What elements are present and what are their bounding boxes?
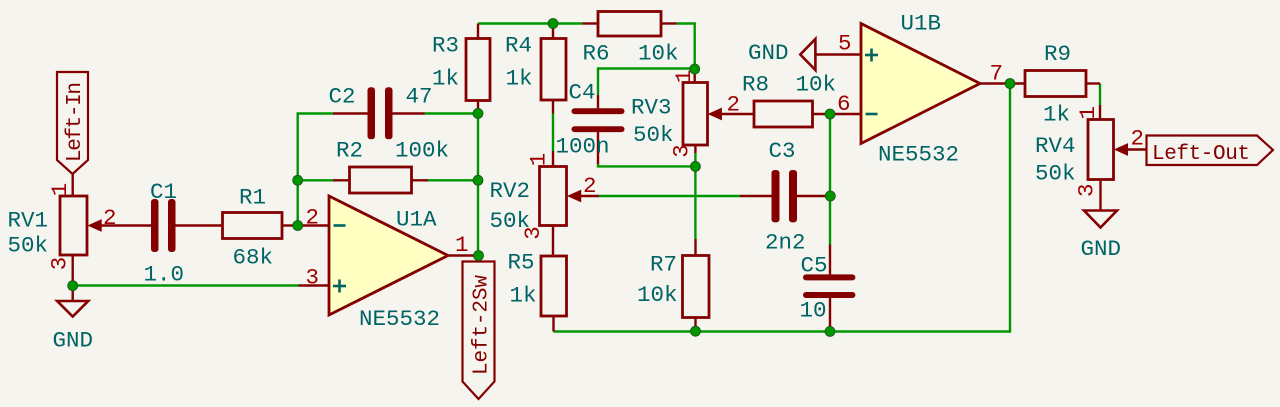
label RV4 [1035, 133, 1076, 159]
ground GND1 stem [71, 286, 73, 302]
pin number U1A-2 [306, 205, 320, 231]
global label Left-In [57, 72, 88, 174]
wire C4 top to RV3 pin1 node [598, 69, 695, 96]
junction J9 [690, 161, 700, 171]
capacitor C1 [151, 199, 223, 252]
svg-text:GND: GND [748, 40, 789, 66]
pin number U1B-5 [838, 31, 852, 57]
svg-text:2: 2 [306, 205, 320, 231]
value RV3 50k [633, 122, 674, 148]
pin stub RV1 pin3 [71, 255, 73, 286]
resistor R7 [683, 239, 710, 331]
wire R9 to RV4 pin1 [1099, 84, 1101, 106]
svg-text:3: 3 [306, 265, 320, 291]
value RV1 50k [8, 233, 49, 259]
global label Left-2Sw [463, 262, 495, 400]
label RV3 [631, 95, 672, 121]
capacitor C5 [803, 245, 855, 332]
svg-text:1k: 1k [510, 283, 537, 309]
pin number RV3-3 [669, 144, 695, 158]
junction J6 [548, 19, 558, 29]
pin number RV3-2 [727, 92, 741, 118]
pin number U1B-6 [837, 91, 851, 117]
value U1B NE5532 [878, 142, 959, 168]
label R2 [336, 138, 363, 164]
value R3 1k [432, 66, 459, 92]
pin stub RV2 pin3 to R5 [552, 226, 554, 257]
wire R2 right stub [428, 179, 478, 181]
value C3 2n2 [765, 230, 806, 256]
value C1 1.0 [144, 262, 185, 288]
ground GND4 text [1081, 236, 1122, 262]
pin number RV1-1 [47, 183, 73, 197]
svg-text:2: 2 [583, 173, 597, 199]
ground GND1 text [53, 328, 94, 354]
label C2 [329, 84, 356, 110]
pin stub U1A pin3 [299, 284, 330, 286]
pin number U1A-3 [306, 265, 320, 291]
svg-text:1: 1 [455, 232, 469, 258]
svg-text:100k: 100k [395, 138, 449, 164]
svg-text:1k: 1k [432, 66, 459, 92]
svg-text:GND: GND [53, 328, 94, 354]
svg-text:50k: 50k [1035, 161, 1076, 187]
resistor R6 [583, 12, 677, 37]
junction J11 [825, 191, 835, 201]
svg-text:10k: 10k [637, 282, 678, 308]
pin number RV1-2 [103, 205, 117, 231]
svg-text:10: 10 [800, 298, 827, 324]
pin stub RV1 pin1 [71, 174, 73, 196]
label C3 [769, 138, 796, 164]
op-amp U1B minus [866, 113, 878, 116]
junction J12 [825, 326, 835, 336]
value R6 10k [638, 41, 679, 67]
wire C2 left loop to node A [298, 114, 333, 226]
wire RV1 pin3 to U1A pin3 [73, 284, 299, 286]
pin stub RV3 pin1 [694, 75, 696, 83]
pin stub RV3 pin3 [694, 145, 696, 153]
svg-text:RV1: RV1 [8, 208, 49, 234]
svg-text:2: 2 [1131, 126, 1145, 152]
pin number U1B-7 [990, 61, 1004, 87]
svg-text:NE5532: NE5532 [878, 142, 959, 168]
svg-text:1: 1 [526, 153, 552, 167]
label R7 [650, 252, 677, 278]
pin stub U1B pin7 [980, 82, 1025, 84]
svg-text:47: 47 [406, 84, 433, 110]
junction J8 [690, 64, 700, 74]
wire C4 bottom to RV3 pin3 node [598, 164, 695, 166]
svg-text:2: 2 [103, 205, 117, 231]
capacitor C4 [572, 95, 625, 164]
resistor R2 [333, 167, 428, 193]
svg-text:R9: R9 [1044, 41, 1071, 67]
wire top net (R3/R4/R6) [478, 22, 583, 24]
pin stub RV4 pin1 [1099, 105, 1101, 120]
svg-text:GND: GND [1081, 236, 1122, 262]
value U1A NE5532 [359, 306, 440, 332]
svg-text:R8: R8 [742, 72, 769, 98]
value R8 10k [796, 72, 837, 98]
svg-text:R3: R3 [432, 33, 459, 59]
op-amp U1B plus [865, 49, 878, 62]
pin number RV1-3 [47, 257, 73, 271]
pin stub RV4 pin3 [1099, 180, 1101, 211]
svg-text:50k: 50k [633, 122, 674, 148]
svg-text:RV4: RV4 [1035, 133, 1076, 159]
pin stub U1A pin1 [448, 254, 479, 256]
label C5 [801, 253, 828, 279]
wire node B vertical (R3/R2/U1A out) [477, 114, 479, 256]
svg-text:R4: R4 [505, 33, 532, 59]
pin stub RV2 pin1 [552, 151, 554, 167]
junction J13 [691, 326, 701, 336]
value C4 100n [556, 134, 610, 160]
svg-text:NE5532: NE5532 [359, 306, 440, 332]
op-amp U1A [329, 196, 448, 315]
svg-text:50k: 50k [490, 208, 531, 234]
value R7 10k [637, 282, 678, 308]
svg-text:Left-Out: Left-Out [1152, 143, 1250, 166]
svg-text:C2: C2 [329, 84, 356, 110]
label R9 [1044, 41, 1071, 67]
global label Left-Out [1147, 136, 1274, 167]
svg-text:Left-In: Left-In [64, 82, 87, 162]
svg-text:Left-2Sw: Left-2Sw [471, 275, 494, 375]
svg-text:50k: 50k [8, 233, 49, 259]
label R5 [508, 250, 535, 276]
svg-text:100n: 100n [556, 134, 610, 160]
pin number RV2-3 [520, 226, 546, 240]
wire RV3 pin3 to R7 [694, 153, 696, 239]
svg-text:6: 6 [837, 91, 851, 117]
pin number U1A-1 [455, 232, 469, 258]
svg-text:R1: R1 [239, 185, 266, 211]
svg-text:1: 1 [47, 183, 73, 197]
label U1B [901, 11, 942, 37]
value R1 68k [233, 245, 274, 271]
label C1 [150, 179, 177, 205]
svg-text:R6: R6 [583, 41, 610, 67]
label R4 [505, 33, 532, 59]
wire R2 left stub [298, 179, 333, 181]
pin stub U1B pin6 [830, 113, 861, 115]
wire bottom net (R5/R7/C5 to U1B out) [554, 84, 1011, 332]
potentiometer RV4 [1088, 120, 1147, 180]
svg-text:R2: R2 [336, 138, 363, 164]
svg-text:C5: C5 [801, 253, 828, 279]
wire C3/C5/pin6 vertical net [829, 114, 831, 245]
junction J3 [473, 108, 483, 118]
svg-text:C1: C1 [150, 179, 177, 205]
svg-text:1: 1 [1075, 106, 1101, 120]
capacitor C2 [333, 87, 425, 139]
op-amp U1A plus [333, 280, 346, 293]
potentiometer RV2 [540, 167, 600, 226]
svg-text:U1B: U1B [901, 11, 942, 37]
svg-text:2: 2 [727, 92, 741, 118]
junction J2 [293, 221, 303, 231]
resistor R1 [223, 213, 298, 239]
svg-text:R5: R5 [508, 250, 535, 276]
ground GND1 [57, 301, 88, 317]
svg-text:3: 3 [1074, 184, 1100, 198]
value R5 1k [510, 283, 537, 309]
svg-text:7: 7 [990, 61, 1004, 87]
pin stub U1A pin2 [298, 224, 329, 226]
label R8 [742, 72, 769, 98]
svg-text:5: 5 [838, 31, 852, 57]
op-amp U1A minus [334, 224, 346, 227]
value R2 100k [395, 138, 449, 164]
svg-text:3: 3 [47, 257, 73, 271]
junction J1 [293, 175, 303, 185]
label R6 [583, 41, 610, 67]
svg-text:U1A: U1A [396, 207, 437, 233]
label RV2 [490, 178, 531, 204]
svg-text:2n2: 2n2 [765, 230, 806, 256]
pin number RV4-3 [1074, 184, 1100, 198]
wire C2 right to R3 bottom [425, 112, 479, 114]
value C5 10 [800, 298, 827, 324]
svg-text:RV3: RV3 [631, 95, 672, 121]
junction J5 [474, 251, 484, 261]
junction J14 [1005, 79, 1015, 89]
value R9 1k [1043, 102, 1070, 128]
value RV2 50k [490, 208, 531, 234]
svg-text:C3: C3 [769, 138, 796, 164]
wire R6 right to RV3 pin1 [677, 24, 695, 75]
ground GND5 text [748, 40, 789, 66]
label U1A [396, 207, 437, 233]
junction J4 [473, 175, 483, 185]
pin number RV2-2 [583, 173, 597, 199]
svg-text:R7: R7 [650, 252, 677, 278]
pin number RV2-1 [526, 153, 552, 167]
pin stub U1B pin5 [815, 53, 861, 55]
pin number RV3-1 [671, 70, 697, 84]
svg-text:10k: 10k [796, 72, 837, 98]
resistor R5 [541, 256, 567, 332]
potentiometer RV3 [683, 83, 754, 146]
svg-text:1.0: 1.0 [144, 262, 185, 288]
potentiometer RV1 [60, 196, 151, 255]
value R4 1k [506, 66, 533, 92]
label C4 [569, 80, 596, 106]
resistor R8 [754, 101, 830, 127]
svg-text:1k: 1k [506, 66, 533, 92]
junction J7 [68, 281, 78, 291]
junction J10 [825, 109, 835, 119]
svg-text:C4: C4 [569, 80, 596, 106]
resistor R4 [541, 24, 566, 114]
pin number RV4-1 [1075, 106, 1101, 120]
ground GND4 [1084, 211, 1117, 228]
svg-text:68k: 68k [233, 245, 274, 271]
value C2 47 [406, 84, 433, 110]
svg-text:1k: 1k [1043, 102, 1070, 128]
resistor R3 [466, 24, 490, 114]
capacitor C3 [740, 170, 830, 222]
wire R4 bottom to RV2 pin1 [552, 114, 554, 152]
svg-text:RV2: RV2 [490, 178, 531, 204]
label R1 [239, 185, 266, 211]
svg-text:10k: 10k [638, 41, 679, 67]
resistor R9 [1025, 71, 1100, 97]
label R3 [432, 33, 459, 59]
label RV1 [8, 208, 49, 234]
wire RV2 wiper to C3 [599, 195, 740, 197]
op-amp U1B [861, 24, 980, 144]
ground GND5 [800, 39, 815, 70]
value RV4 50k [1035, 161, 1076, 187]
pin number RV4-2 [1131, 126, 1145, 152]
